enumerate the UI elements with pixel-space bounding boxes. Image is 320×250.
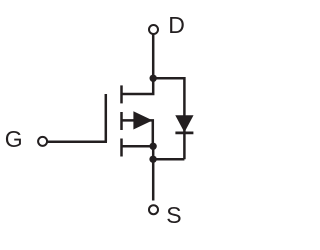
diode D1 cathode bar (175, 131, 193, 134)
terminal S circle (149, 205, 158, 214)
wire: drain lead from D terminal down to drain stub corner (122, 34, 154, 94)
wire: body stub with corner down to source node (122, 120, 153, 146)
diode D1 body-diode triangle (anode, pointing down) (176, 116, 193, 132)
transistor Q1 body arrow (points right, P-channel) (134, 112, 152, 129)
wire: drain node to diode branch (top) (153, 77, 184, 80)
wire: source stub (122, 145, 154, 148)
terminal D circle (149, 25, 158, 34)
terminal G circle (38, 137, 47, 146)
transistor Q1 channel bar (drain segment) (120, 85, 123, 103)
node: source junction dot (stub) (149, 143, 156, 150)
node: drain junction dot (150, 75, 157, 82)
transistor Q1 gate electrode line (105, 94, 108, 142)
node: source junction dot (diode return) (149, 156, 156, 163)
wire: source lead down to S terminal (152, 146, 155, 200)
wire: gate wire from G terminal (47, 140, 107, 143)
wire: diode branch bottom to source node (153, 158, 184, 161)
svg-text:D: D (168, 12, 185, 38)
svg-text:S: S (166, 202, 181, 228)
wire: diode branch vertical (183, 77, 186, 159)
transistor Q1 channel bar (source segment) (120, 139, 123, 157)
svg-text:G: G (5, 126, 23, 152)
transistor Q1 channel bar (body segment) (120, 112, 123, 130)
